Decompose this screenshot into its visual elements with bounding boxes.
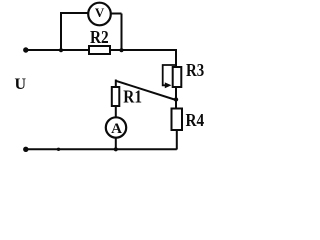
wire R4 bottom to bottom rail	[176, 130, 178, 150]
wire top horizontal left segment	[26, 49, 89, 51]
resistor R2 box	[89, 46, 110, 54]
svg-text:U: U	[15, 76, 27, 93]
node junction of voltmeter branch right	[119, 48, 123, 52]
node junction R3-R4 with R1 branch	[174, 97, 178, 101]
wire stub above R1	[115, 80, 117, 88]
rheostat arrow head on R3	[165, 82, 172, 88]
voltmeter U-volt circle	[88, 3, 111, 26]
wire top horizontal right segment with corner down to R3	[110, 50, 176, 67]
node small dot on bottom rail	[57, 148, 60, 151]
terminal dot top-left	[23, 47, 28, 52]
ammeter circle	[106, 117, 126, 137]
svg-text:R1: R1	[123, 86, 142, 106]
wire voltmeter loop right vertical	[121, 14, 123, 51]
wire voltmeter loop top left horizontal	[60, 12, 89, 14]
node junction of voltmeter branch left	[59, 48, 63, 52]
resistor R1 box	[112, 87, 120, 106]
svg-text:A: A	[111, 121, 122, 137]
wire diagonal from R1 top to R3-R4 junction	[116, 81, 176, 100]
terminal dot bottom-left	[23, 147, 28, 152]
svg-text:R4: R4	[186, 110, 205, 130]
wire bottom rail	[26, 148, 177, 150]
node junction ammeter branch on bottom rail	[114, 147, 118, 151]
svg-text:R2: R2	[90, 27, 109, 47]
resistor R3 box	[173, 67, 182, 87]
wire ammeter bottom to bottom rail	[115, 138, 117, 150]
svg-text:R3: R3	[186, 61, 204, 80]
wire R1 bottom to ammeter	[115, 106, 117, 118]
wire voltmeter loop left vertical	[60, 13, 62, 50]
resistor R4 box	[172, 109, 183, 131]
svg-text:V: V	[95, 5, 105, 20]
wire voltmeter loop top right horizontal	[111, 13, 122, 15]
rheostat tap bracket of R3	[163, 65, 176, 85]
wire between R3 and R4	[175, 87, 177, 109]
